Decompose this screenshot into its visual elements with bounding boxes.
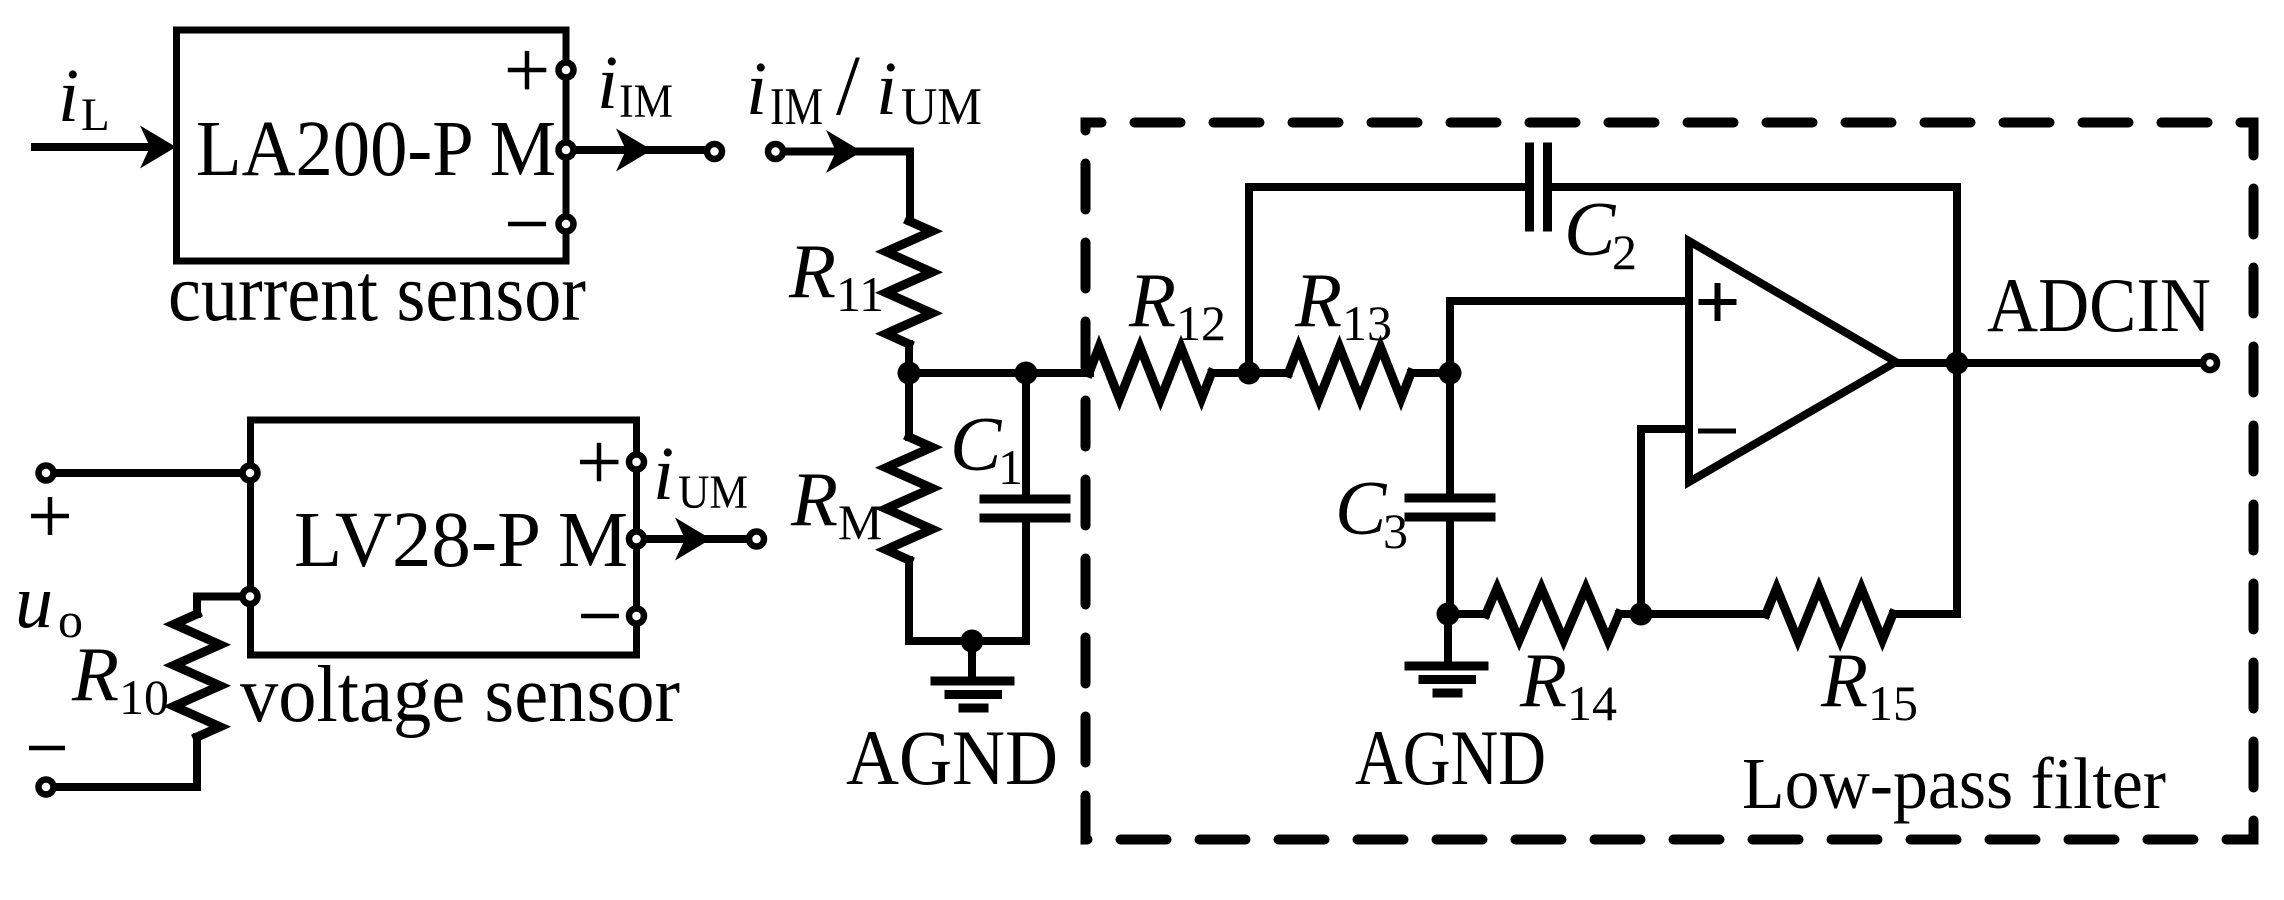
svg-text:R: R bbox=[1519, 637, 1567, 723]
svg-text:i: i bbox=[653, 432, 674, 516]
svg-text:R: R bbox=[1128, 257, 1176, 343]
svg-text:C: C bbox=[950, 401, 1003, 487]
svg-text:AGND: AGND bbox=[1355, 714, 1546, 801]
svg-text:15: 15 bbox=[1868, 675, 1918, 731]
svg-text:1: 1 bbox=[998, 439, 1023, 495]
svg-text:12: 12 bbox=[1176, 295, 1226, 351]
svg-text:i: i bbox=[876, 47, 897, 131]
svg-text:i: i bbox=[746, 47, 767, 131]
svg-text:ADCIN: ADCIN bbox=[1987, 262, 2211, 348]
svg-text:i: i bbox=[58, 54, 79, 138]
svg-text:voltage sensor: voltage sensor bbox=[240, 649, 680, 739]
svg-text:R: R bbox=[790, 456, 838, 542]
svg-text:i: i bbox=[597, 41, 618, 125]
svg-text:AGND: AGND bbox=[846, 714, 1058, 801]
svg-text:UM: UM bbox=[901, 78, 982, 136]
svg-text:LA200-P M: LA200-P M bbox=[196, 106, 556, 193]
svg-text:R: R bbox=[788, 228, 836, 314]
svg-text:13: 13 bbox=[1342, 295, 1392, 351]
svg-text:R: R bbox=[1820, 637, 1868, 723]
svg-text:2: 2 bbox=[1612, 224, 1637, 280]
svg-text:R: R bbox=[1294, 257, 1342, 343]
svg-text:3: 3 bbox=[1383, 503, 1408, 559]
svg-text:IM: IM bbox=[770, 78, 823, 136]
svg-text:UM: UM bbox=[678, 466, 748, 519]
svg-text:R: R bbox=[71, 631, 119, 717]
svg-text:C: C bbox=[1335, 465, 1388, 551]
svg-text:11: 11 bbox=[836, 266, 884, 322]
svg-text:10: 10 bbox=[119, 669, 169, 725]
svg-text:IM: IM bbox=[619, 75, 673, 128]
svg-text:LV28-P M: LV28-P M bbox=[294, 497, 628, 584]
svg-text:C: C bbox=[1564, 186, 1617, 272]
svg-text:u: u bbox=[15, 560, 53, 644]
svg-text:current sensor: current sensor bbox=[168, 247, 586, 338]
svg-text:14: 14 bbox=[1567, 675, 1617, 731]
svg-text:Low-pass filter: Low-pass filter bbox=[1742, 743, 2166, 824]
svg-text:L: L bbox=[81, 89, 110, 141]
svg-text:/: / bbox=[836, 37, 860, 133]
svg-text:M: M bbox=[838, 494, 882, 550]
